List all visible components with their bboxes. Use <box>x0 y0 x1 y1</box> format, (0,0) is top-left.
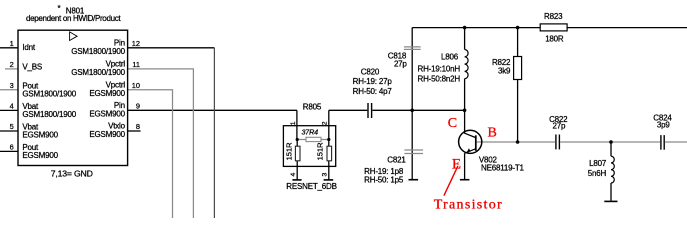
svg-text:RESNET_6DB: RESNET_6DB <box>286 182 336 191</box>
svg-text:7,13= GND: 7,13= GND <box>51 169 93 179</box>
svg-text:11: 11 <box>132 60 140 69</box>
svg-text:L806: L806 <box>441 53 459 62</box>
svg-text:5n6H: 5n6H <box>588 169 607 178</box>
svg-text:NE68119-T1: NE68119-T1 <box>481 164 525 173</box>
svg-text:EGSM900: EGSM900 <box>89 110 125 119</box>
svg-text:RH-19:10nH: RH-19:10nH <box>418 64 461 73</box>
svg-text:4: 4 <box>290 173 297 177</box>
svg-text:RH-50: 4p7: RH-50: 4p7 <box>353 87 393 96</box>
svg-text:GSM1800/1900: GSM1800/1900 <box>22 90 76 99</box>
svg-text:RH-19: 27p: RH-19: 27p <box>353 77 393 86</box>
svg-text:RH-50: 1p5: RH-50: 1p5 <box>364 175 404 184</box>
svg-text:V_BS: V_BS <box>22 63 42 72</box>
svg-text:GSM1800/1900: GSM1800/1900 <box>71 68 125 77</box>
svg-text:6: 6 <box>10 143 14 152</box>
svg-text:EGSM900: EGSM900 <box>22 151 58 160</box>
svg-text:3: 3 <box>10 81 14 90</box>
svg-text:2: 2 <box>10 60 14 69</box>
svg-text:4: 4 <box>10 102 14 111</box>
svg-text:Transistor: Transistor <box>434 198 503 213</box>
svg-text:EGSM900: EGSM900 <box>89 130 125 139</box>
svg-text:8: 8 <box>136 122 140 131</box>
svg-text:*: * <box>58 4 61 13</box>
svg-text:C821: C821 <box>387 156 406 165</box>
svg-text:EGSM900: EGSM900 <box>89 89 125 98</box>
svg-text:EGSM900: EGSM900 <box>22 131 58 140</box>
svg-text:C820: C820 <box>361 67 380 76</box>
svg-text:3p9: 3p9 <box>657 121 670 130</box>
svg-text:RH-50:8n2H: RH-50:8n2H <box>418 75 461 84</box>
svg-text:2: 2 <box>322 121 329 125</box>
svg-text:C: C <box>448 116 457 131</box>
svg-text:Idnt: Idnt <box>22 43 36 52</box>
svg-text:L807: L807 <box>589 159 607 168</box>
svg-text:1: 1 <box>10 39 14 48</box>
svg-text:12: 12 <box>132 39 140 48</box>
svg-text:3: 3 <box>322 173 329 177</box>
svg-text:10: 10 <box>132 81 140 90</box>
svg-text:GSM1800/1900: GSM1800/1900 <box>22 110 76 119</box>
svg-text:151R: 151R <box>284 142 293 161</box>
svg-text:180R: 180R <box>545 34 564 43</box>
svg-text:27p: 27p <box>394 59 407 68</box>
svg-text:R805: R805 <box>303 102 322 111</box>
svg-text:5: 5 <box>10 122 14 131</box>
svg-text:3k9: 3k9 <box>498 67 511 76</box>
svg-text:R823: R823 <box>544 12 563 21</box>
svg-text:B: B <box>488 126 497 141</box>
svg-text:9: 9 <box>136 102 140 111</box>
svg-text:151R: 151R <box>316 142 325 161</box>
svg-text:1: 1 <box>290 121 297 125</box>
svg-text:37R4: 37R4 <box>302 127 319 136</box>
svg-text:dependent on HWID/Product: dependent on HWID/Product <box>26 14 121 23</box>
svg-text:27p: 27p <box>553 122 566 131</box>
svg-text:GSM1800/1900: GSM1800/1900 <box>71 47 125 56</box>
